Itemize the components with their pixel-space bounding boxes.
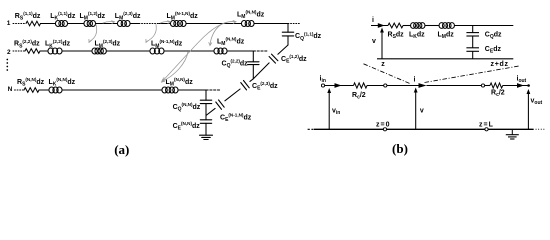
inductor LM(N,N) row1 (241, 21, 246, 27)
wire rowN dotted lead (15, 89, 25, 91)
vertical dots between row2 and rowN (6, 59, 8, 61)
wire cap branch row2 upper (252, 51, 254, 62)
voltage arrow v upper cell (381, 30, 383, 59)
wire row1 g (254, 23, 288, 25)
resistor RS (388, 23, 403, 28)
capacitor CE(1,2) (272, 54, 278, 61)
figure (a): multiconductor transmission-line lumped cell (6, 10, 321, 140)
bottom return rail dotted tail (533, 128, 545, 130)
voltage arrow v_in (328, 90, 330, 129)
svg-text:CEdz: CEdz (485, 46, 502, 55)
wire row1 d (130, 23, 139, 25)
svg-text:z=0: z=0 (376, 122, 390, 129)
resistor RS(N,N) (24, 88, 39, 93)
node circle z=L (485, 128, 488, 131)
wire row1 a (41, 23, 56, 25)
wire upper cell a (403, 25, 411, 27)
input node circle (321, 84, 324, 87)
wire cap branch rowN mid (205, 104, 207, 120)
svg-text:CE(2,3)dz: CE(2,3)dz (252, 81, 278, 91)
voltage arrow v mid (415, 90, 417, 130)
wire lower line b (367, 85, 384, 87)
svg-text:LM(N,N)dz: LM(N,N)dz (217, 37, 245, 47)
wire row1 dotted mid (139, 23, 159, 25)
inductor LM(2,3) row2 (92, 48, 97, 54)
inductor LM(N,N) rowN (162, 87, 167, 93)
gray arrow along row1 at LM(2,3) (103, 21, 114, 23)
svg-text:iin: iin (320, 76, 326, 85)
resistor Rc/2 right (490, 83, 503, 88)
svg-text:v: v (420, 108, 424, 115)
wire cap branch row2 lower (252, 65, 254, 79)
wire row1 dotted tail (288, 23, 301, 25)
resistor Rc/2 left (354, 83, 368, 88)
capacitor branch lower wire (472, 51, 474, 59)
output node dot (527, 84, 530, 87)
svg-text:LK(2,2)dz: LK(2,2)dz (45, 39, 71, 49)
diagonal wire node A1 to A2 with CE(1,2) (278, 45, 288, 54)
wire row2 dotted lead (13, 50, 25, 52)
gray arrow row1 to row2 LM(N-1,N) coil (147, 25, 157, 42)
capacitor CE (466, 47, 479, 49)
svg-text:CQ(N,N)dz: CQ(N,N)dz (173, 102, 201, 112)
svg-text:Rc/2: Rc/2 (491, 90, 505, 99)
svg-text:RS(1,1)dz: RS(1,1)dz (15, 11, 41, 21)
wire row2 a (40, 50, 48, 52)
svg-text:(b): (b) (392, 141, 408, 156)
svg-text:CQdz: CQdz (485, 32, 502, 41)
svg-text:v: v (372, 38, 376, 45)
figure (b): single-line equivalent circuit (308, 17, 545, 139)
capacitor CE(N,N) (200, 119, 211, 121)
wire row2 e (227, 50, 253, 52)
gray arrow along row1 at LM(N-1,N) (161, 21, 171, 23)
wire upper cell c (455, 25, 514, 27)
wire lower line c (387, 85, 419, 87)
svg-text:z+dz: z+dz (491, 61, 509, 68)
wire row2 c (106, 50, 150, 52)
svg-text:LM(N,N)dz: LM(N,N)dz (237, 10, 265, 20)
capacitor CE(N-1,N) (219, 100, 225, 107)
gray arrow row2 to rowN LM(N,N) coil (162, 52, 188, 82)
ground figure b (511, 129, 513, 134)
wire row1 c (96, 23, 118, 25)
svg-text:CE(N,N)dz: CE(N,N)dz (173, 121, 201, 131)
svg-text:LK(N,N)dz: LK(N,N)dz (49, 77, 76, 87)
inductor LM(2,3) row1 (117, 21, 122, 27)
wire cap branch row1 lower (287, 36, 289, 45)
capacitor CQ(N,N) (200, 99, 211, 101)
svg-text:N: N (8, 86, 13, 93)
dash-dot projection line right (425, 66, 520, 83)
bottom return rail dashed lead (308, 128, 314, 130)
inductor LM (439, 23, 444, 29)
svg-text:z: z (381, 61, 385, 68)
wire lower line a (325, 85, 354, 87)
gray arrow along row1 at LM(N,N) (221, 21, 236, 24)
inductor LK(1,1) (55, 21, 60, 27)
wire cap branch rowN upper (205, 90, 207, 100)
wire row1 f (186, 23, 242, 25)
svg-text:LKdz: LKdz (409, 32, 425, 41)
current arrow i_in (335, 83, 342, 88)
svg-text:i: i (372, 17, 374, 24)
gray arrow row1 to rowN LM(N,N) coil long (164, 25, 222, 81)
svg-text:LM(2,3)dz: LM(2,3)dz (95, 39, 121, 49)
gray arrow row1 to row2 LM(N,N) coil (210, 25, 221, 45)
inductor LK(2,2) (48, 48, 53, 54)
svg-text:CE(N-1,N)dz: CE(N-1,N)dz (220, 113, 252, 123)
node circle after Rc/2 left (384, 84, 387, 87)
svg-text:iout: iout (517, 76, 527, 85)
capacitor branch upper: wire (472, 26, 474, 33)
svg-text:LM(N,N)dz: LM(N,N)dz (166, 77, 194, 87)
dash-dot projection line left (364, 64, 411, 84)
capacitor CQ(1,1) (282, 31, 293, 33)
inductor LM(N,N) row2 (214, 48, 219, 54)
resistor RS(2,2) (25, 49, 40, 54)
svg-text:LM(N-1,N)dz: LM(N-1,N)dz (151, 39, 183, 49)
svg-text:LMdz: LMdz (438, 32, 455, 41)
wire row1 b (68, 23, 85, 25)
node circle before Rc/2 right (481, 84, 484, 87)
wire upper cell lead (371, 25, 388, 27)
svg-text:1: 1 (7, 20, 11, 27)
upper cell bottom rail (377, 58, 513, 60)
inductor LK (411, 23, 416, 29)
svg-text:2: 2 (7, 49, 11, 56)
svg-text:CE(1,2)dz: CE(1,2)dz (281, 54, 307, 64)
wire row1 e (159, 23, 171, 25)
svg-text:RS(N,N)dz: RS(N,N)dz (17, 77, 45, 87)
wire rowN dashed tail (206, 89, 220, 91)
svg-text:RSdz: RSdz (388, 32, 405, 41)
wire lower line d (427, 85, 482, 87)
wire lower line e (503, 85, 529, 87)
gray arrow row1 to row2 LM(2,3) coil (90, 25, 97, 42)
svg-text:CQ(1,1)dz: CQ(1,1)dz (295, 31, 322, 41)
diagonal wire node A2 to AN with CE(2,3) and CE(N-1,N) (250, 79, 253, 82)
wire row2 b (62, 50, 92, 52)
current arrow upper cell (378, 23, 385, 28)
node circle z=0 (383, 128, 386, 131)
wire row2 dashed tail (253, 50, 267, 52)
wire row1 dotted lead (13, 23, 26, 25)
svg-text:i: i (414, 77, 416, 84)
wire row2 d (164, 50, 214, 52)
svg-text:(a): (a) (114, 142, 129, 157)
voltage arrow v_out (527, 91, 529, 129)
current arrow i mid (419, 83, 427, 88)
bottom return rail (314, 128, 533, 130)
current arrow i_out (517, 83, 524, 88)
capacitor CE(2,3) (244, 81, 250, 88)
svg-text:LK(1,1)dz: LK(1,1)dz (50, 11, 76, 21)
svg-text:CQ(2,2)dz: CQ(2,2)dz (222, 59, 249, 69)
svg-text:LM(N-1,N)dz: LM(N-1,N)dz (167, 11, 199, 21)
inductor LK(N,N) (49, 87, 54, 93)
capacitor branch mid wire (472, 36, 474, 48)
capacitor CQ (466, 32, 479, 34)
capacitor CQ(2,2) (248, 61, 259, 63)
svg-text:vout: vout (531, 98, 543, 107)
svg-text:Rc/2: Rc/2 (352, 92, 366, 101)
inductor LM(N-1,N) row1 (170, 21, 175, 27)
wire rowN b (62, 89, 162, 91)
wire cap branch row1 upper (287, 24, 289, 33)
wire rowN c (178, 89, 206, 91)
svg-text:vin: vin (332, 108, 340, 117)
inductor LM(1,2) (84, 21, 89, 27)
wire rowN a (39, 89, 49, 91)
wire upper cell b (425, 25, 439, 27)
ground figure a (205, 130, 207, 135)
resistor RS(1,1) (26, 21, 41, 26)
wire cap branch rowN lower (205, 123, 207, 135)
inductor LM(N-1,N) row2 (150, 48, 155, 54)
